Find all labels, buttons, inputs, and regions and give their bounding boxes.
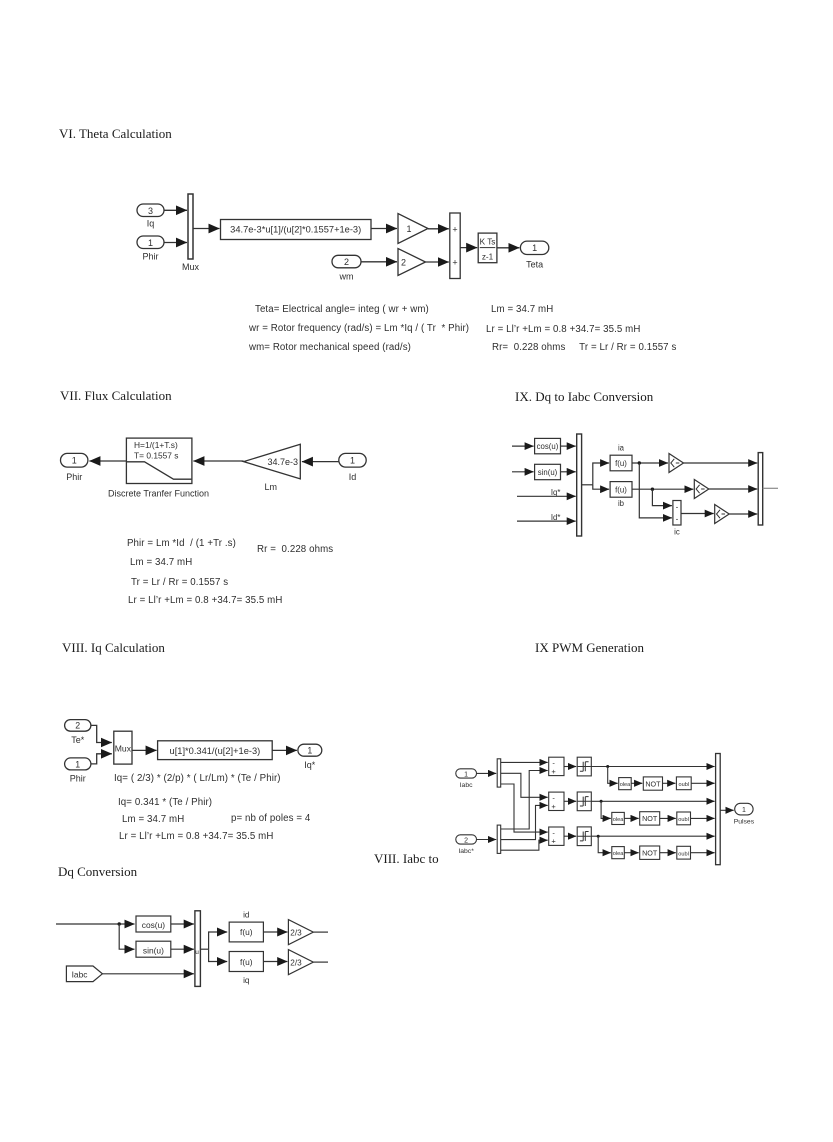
svg-text:NOT: NOT bbox=[645, 779, 661, 788]
wire f(u) id to gain bbox=[263, 931, 287, 933]
svg-text:+: + bbox=[551, 837, 556, 846]
wire relay3 to out mux bbox=[591, 835, 714, 837]
outport 1 Teta bbox=[520, 241, 548, 254]
section title IX PWM bbox=[535, 640, 644, 656]
inport 1 Iabc bbox=[456, 769, 477, 779]
wire inport2 to demux2 bbox=[477, 839, 497, 841]
demux 2 bar bbox=[497, 825, 501, 853]
svg-text:olea: olea bbox=[613, 851, 624, 857]
svg-text:H=1/(1+T.s): H=1/(1+T.s) bbox=[134, 440, 178, 450]
wire inport3 to mux bbox=[164, 209, 187, 211]
wire mux stub out bbox=[582, 484, 593, 486]
svg-text:sin(u): sin(u) bbox=[538, 468, 558, 477]
svg-text:z-1: z-1 bbox=[482, 252, 494, 261]
junction input node bbox=[118, 922, 121, 925]
wire sum3 to relay3 bbox=[564, 835, 576, 837]
svg-text:Id: Id bbox=[349, 472, 357, 482]
svg-text:2/3: 2/3 bbox=[290, 928, 302, 937]
outport 1 Iq* bbox=[298, 744, 322, 756]
svg-text:f(u): f(u) bbox=[615, 459, 627, 468]
wire sum to gain c bbox=[681, 513, 714, 515]
fcn block u[1]*0.341/(u[2]+1e-3) bbox=[158, 741, 273, 760]
relay 1 bbox=[577, 757, 591, 776]
wire tag to mux bbox=[102, 973, 193, 975]
svg-text:NOT: NOT bbox=[642, 814, 658, 823]
svg-text:Mux: Mux bbox=[182, 262, 200, 272]
svg-text:+: + bbox=[551, 802, 556, 811]
wire Te* to mux bbox=[91, 725, 112, 742]
wire gain1 to sum bbox=[428, 228, 449, 230]
wire branch to f(u) iq bbox=[209, 949, 228, 961]
wire f(u) ia to gain a bbox=[632, 462, 668, 464]
svg-text:Te*: Te* bbox=[71, 735, 85, 745]
gain 2 bbox=[398, 249, 426, 276]
wire inport1 to demux1 bbox=[477, 772, 497, 774]
svg-text:Iabc: Iabc bbox=[460, 782, 473, 789]
svg-text:u[1]*0.341/(u[2]+1e-3): u[1]*0.341/(u[2]+1e-3) bbox=[170, 746, 261, 756]
fcn f(u) iq bbox=[229, 952, 263, 972]
fcn f(u) ia bbox=[610, 455, 632, 471]
svg-text:T= 0.1557 s: T= 0.1557 s bbox=[134, 450, 178, 460]
svg-text:K Ts: K Ts bbox=[480, 238, 496, 247]
junction node b bbox=[651, 488, 654, 491]
data type conversion double 2 bbox=[677, 812, 691, 825]
annotation text block 2 bbox=[127, 538, 236, 549]
svg-text:1: 1 bbox=[75, 759, 80, 769]
svg-text:2: 2 bbox=[401, 258, 406, 268]
inport 2 wm bbox=[332, 255, 361, 267]
data type conversion boolean 1 bbox=[619, 778, 632, 790]
sum 1 bbox=[549, 757, 564, 776]
svg-text:olea: olea bbox=[620, 782, 631, 788]
wire branch to f(u) id bbox=[209, 932, 228, 949]
wire f(u) ib to gain b bbox=[632, 488, 693, 490]
wire mux to fcn bbox=[132, 749, 157, 751]
svg-text:f(u): f(u) bbox=[615, 485, 627, 494]
svg-text:iq: iq bbox=[243, 976, 250, 985]
wire Iq* to mux bbox=[517, 495, 576, 497]
wire inport to gain bbox=[302, 461, 339, 463]
svg-text:Lm: Lm bbox=[264, 482, 277, 492]
wire input to sin(u) bbox=[512, 471, 534, 473]
wire gain iq output bbox=[313, 961, 328, 963]
gain a bbox=[669, 454, 684, 473]
wire not1 to double1 bbox=[663, 782, 676, 784]
wire junction b to sum upper input bbox=[652, 489, 672, 505]
gain 2/3 iq bbox=[288, 950, 313, 975]
wire Id* to mux bbox=[517, 520, 576, 522]
wire junction2 to boolean2 bbox=[601, 801, 611, 818]
wire cos to mux bbox=[171, 923, 194, 925]
wire mux to fcn bbox=[193, 228, 220, 230]
wire double2 to out mux bbox=[691, 817, 715, 819]
svg-text:Iq: Iq bbox=[147, 219, 155, 229]
wire double1 to out mux bbox=[691, 782, 714, 784]
inport 3 Iq bbox=[137, 204, 164, 217]
fcn sin(u) bbox=[535, 464, 561, 479]
svg-text:+: + bbox=[551, 767, 556, 776]
svg-text:Id*: Id* bbox=[551, 513, 561, 522]
gain 1 bbox=[398, 214, 428, 244]
wire wm to gain2 bbox=[361, 261, 397, 263]
wire gain a to out mux bbox=[684, 462, 758, 464]
from tag Iabc bbox=[66, 966, 102, 982]
fcn f(u) id bbox=[229, 922, 263, 942]
section title VIII iabc to dq (part 2) bbox=[58, 864, 137, 880]
wire gain id output bbox=[313, 931, 328, 933]
svg-text:2: 2 bbox=[75, 721, 80, 731]
data type conversion double 3 bbox=[677, 846, 691, 859]
svg-text:34.7e-3*u[1]/(u[2]*0.1557+1e-3: 34.7e-3*u[1]/(u[2]*0.1557+1e-3) bbox=[230, 225, 361, 235]
fcn sin(u) bbox=[136, 941, 171, 957]
wire gain b to out mux bbox=[709, 488, 757, 490]
wire boolean2 to not2 bbox=[624, 817, 638, 819]
inport 1 Phir bbox=[65, 758, 91, 770]
inport 1 Id bbox=[339, 453, 366, 467]
not block 3 bbox=[640, 846, 660, 859]
data type conversion boolean 3 bbox=[612, 847, 625, 859]
svg-text:-: - bbox=[676, 503, 679, 512]
wire gain c to out mux bbox=[729, 513, 757, 515]
svg-text:-: - bbox=[676, 515, 679, 524]
junction row2 bbox=[600, 800, 603, 803]
wire mux stub bbox=[200, 948, 208, 950]
section title VI bbox=[59, 126, 172, 142]
inport 1 Phir bbox=[137, 236, 164, 249]
section title VIII bbox=[62, 640, 165, 656]
discrete transfer function block bbox=[126, 438, 191, 483]
svg-text:Iq*: Iq* bbox=[304, 760, 316, 770]
wire gain2 to sum bbox=[426, 261, 449, 263]
svg-text:Iabc: Iabc bbox=[72, 969, 88, 979]
svg-text:f(u): f(u) bbox=[240, 957, 253, 967]
svg-text:1: 1 bbox=[464, 771, 468, 778]
wire f(u) iq to gain bbox=[263, 961, 287, 963]
svg-text:1: 1 bbox=[307, 746, 312, 756]
svg-text:Phir: Phir bbox=[70, 773, 86, 783]
wire junction a to sum lower input bbox=[639, 463, 672, 518]
svg-text:1: 1 bbox=[72, 456, 77, 466]
wire sum2 to relay2 bbox=[564, 800, 576, 802]
sum 3 bbox=[549, 827, 564, 846]
wire junction3 to boolean3 bbox=[598, 836, 611, 853]
sum block ic bbox=[673, 501, 681, 526]
svg-text:f(u): f(u) bbox=[240, 927, 253, 937]
svg-text:Iq*: Iq* bbox=[551, 488, 561, 497]
fcn cos(u) bbox=[535, 438, 561, 453]
wire boolean3 to not3 bbox=[624, 852, 638, 854]
wire dtf to outport bbox=[89, 460, 126, 462]
mux Mux block bbox=[114, 731, 132, 764]
svg-text:Discrete Tranfer Function: Discrete Tranfer Function bbox=[108, 489, 209, 499]
wire demux1 c to sum3 minus bbox=[501, 784, 548, 832]
svg-text:oubl: oubl bbox=[679, 782, 690, 788]
gain c bbox=[715, 505, 730, 524]
inport 2 Iabc* bbox=[456, 835, 477, 845]
wire relay2 to out mux bbox=[591, 800, 714, 802]
svg-text:Phir: Phir bbox=[142, 252, 158, 262]
junction node a bbox=[638, 461, 641, 464]
relay 2 bbox=[577, 792, 591, 811]
wire junction1 to boolean1 bbox=[608, 767, 618, 784]
svg-text:wm: wm bbox=[339, 272, 354, 282]
svg-text:Phir: Phir bbox=[66, 472, 82, 482]
wire sin to mux bbox=[561, 471, 576, 473]
outport 1 Pulses bbox=[735, 803, 753, 815]
svg-text:+: + bbox=[452, 258, 457, 268]
svg-text:ic: ic bbox=[674, 528, 680, 537]
wire demux2 a to sum1 plus bbox=[501, 771, 548, 830]
wire not2 to double2 bbox=[660, 817, 676, 819]
gain 2/3 id bbox=[288, 920, 313, 945]
unit delay K Ts/z-1 bbox=[478, 233, 497, 263]
mux bar bbox=[195, 911, 201, 987]
svg-text:1: 1 bbox=[532, 243, 537, 253]
wire demux2 c to sum3 plus bbox=[501, 840, 548, 850]
mux bar bbox=[577, 434, 582, 536]
fcn cos(u) bbox=[136, 916, 171, 932]
output mux bar bbox=[758, 453, 763, 525]
sum block bbox=[450, 213, 460, 279]
wire input to cos(u) bbox=[56, 923, 135, 925]
wire branch to f(u) ia bbox=[593, 463, 609, 485]
outport 1 Phir bbox=[61, 453, 88, 467]
wire input to cos(u) bbox=[512, 445, 534, 447]
section title VIII iabc to dq (part 1) bbox=[374, 851, 439, 867]
fcn f(u) ib bbox=[610, 482, 632, 498]
svg-text:2: 2 bbox=[344, 257, 349, 267]
svg-text:oubl: oubl bbox=[678, 817, 689, 823]
section title IX dq to iabc bbox=[515, 389, 653, 405]
section title VII bbox=[60, 388, 172, 404]
wire branch to sin(u) bbox=[119, 924, 134, 949]
wire fcn to gain1 bbox=[371, 228, 397, 230]
not block 2 bbox=[640, 812, 660, 825]
svg-text:34.7e-3: 34.7e-3 bbox=[267, 457, 298, 467]
svg-text:Pulses: Pulses bbox=[734, 819, 755, 826]
gain b bbox=[694, 480, 709, 499]
sum 2 bbox=[549, 792, 564, 811]
svg-text:2: 2 bbox=[464, 837, 468, 844]
wire Phir to mux bbox=[91, 754, 112, 764]
wire demux2 b to sum2 plus bbox=[501, 805, 548, 839]
svg-text:+: + bbox=[452, 224, 457, 234]
wire output bbox=[763, 487, 778, 489]
svg-text:Teta: Teta bbox=[526, 260, 543, 270]
data type conversion double 1 bbox=[676, 777, 691, 790]
relay 3 bbox=[577, 827, 591, 846]
wire boolean1 to not1 bbox=[631, 782, 642, 784]
annotation text block 1 bbox=[255, 304, 429, 315]
wire fcn to outport bbox=[272, 749, 297, 751]
svg-text:NOT: NOT bbox=[642, 848, 658, 857]
wire sin to mux bbox=[171, 948, 194, 950]
svg-text:cos(u): cos(u) bbox=[537, 442, 559, 451]
wire gain to dtf bbox=[193, 460, 243, 462]
demux 1 bar bbox=[497, 759, 501, 787]
fcn block 34.7e-3*u[1]/(u[2]*0.1557+1e-3) bbox=[221, 220, 372, 240]
mux Mux bbox=[188, 194, 193, 259]
svg-text:ia: ia bbox=[618, 444, 625, 453]
wire out mux to outport bbox=[720, 809, 734, 811]
svg-text:1: 1 bbox=[148, 238, 153, 248]
output mux bar bbox=[716, 754, 721, 865]
svg-text:1: 1 bbox=[407, 224, 412, 234]
wire not3 to double3 bbox=[660, 852, 676, 854]
svg-text:2/3: 2/3 bbox=[290, 958, 302, 967]
wire inport1 to mux bbox=[164, 242, 187, 244]
junction row3 bbox=[597, 835, 600, 838]
annotation text block 3 bbox=[114, 773, 281, 784]
svg-text:sin(u): sin(u) bbox=[143, 945, 164, 955]
not block 1 bbox=[643, 777, 662, 790]
wire double3 to out mux bbox=[691, 852, 715, 854]
wire demux1 b to sum2 minus bbox=[501, 773, 548, 797]
svg-text:id: id bbox=[243, 911, 250, 920]
svg-text:cos(u): cos(u) bbox=[142, 920, 165, 930]
svg-text:u: u bbox=[195, 949, 199, 956]
wire sum1 to relay1 bbox=[564, 766, 576, 768]
svg-text:olea: olea bbox=[613, 817, 624, 823]
svg-text:oubl: oubl bbox=[678, 851, 689, 857]
inport 2 Te* bbox=[65, 720, 91, 732]
svg-text:1: 1 bbox=[742, 807, 746, 814]
data type conversion boolean 2 bbox=[612, 812, 625, 824]
wire branch to f(u) ib bbox=[593, 485, 609, 489]
wire cos to mux bbox=[561, 445, 576, 447]
svg-text:Iabc*: Iabc* bbox=[458, 848, 474, 855]
wire sum to unit delay bbox=[460, 247, 477, 249]
wire demux1 a to sum1 minus bbox=[501, 761, 548, 763]
svg-text:3: 3 bbox=[148, 206, 153, 216]
svg-text:ib: ib bbox=[618, 499, 625, 508]
svg-text:Mux: Mux bbox=[115, 743, 132, 753]
svg-text:1: 1 bbox=[350, 456, 355, 466]
wire relay1 to out mux bbox=[591, 766, 714, 768]
wire unit delay to outport bbox=[497, 247, 520, 249]
junction row1 bbox=[606, 765, 609, 768]
gain Lm 34.7e-3 bbox=[244, 444, 301, 479]
